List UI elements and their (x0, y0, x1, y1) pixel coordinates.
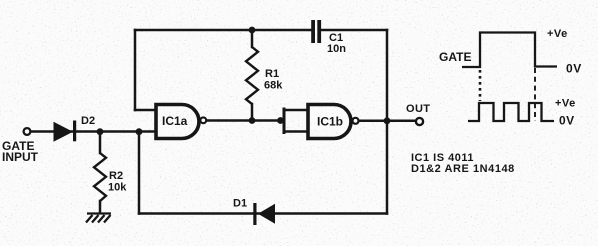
junction dot R1 top (249, 27, 256, 34)
svg-text:INPUT: INPUT (2, 150, 39, 164)
output bubble IC1b (353, 118, 359, 124)
wire bottom feedback rail (139, 212, 387, 215)
svg-text:IC1b: IC1b (317, 115, 343, 129)
wire left vertical from top rail (134, 30, 137, 110)
dotted timing line left (479, 70, 482, 101)
svg-text:D2: D2 (81, 115, 95, 127)
junction dot R2 top (97, 128, 104, 135)
svg-text:10k: 10k (108, 182, 127, 194)
junction dot OUT node (384, 117, 391, 124)
wire left drop to bottom rail (138, 132, 141, 214)
wire R1 top lead (251, 30, 254, 47)
dashed timing line right (534, 68, 536, 121)
junction dot left drop (136, 128, 143, 135)
svg-text:+Ve: +Ve (547, 28, 568, 40)
wire IC1a top input stub (135, 109, 156, 112)
svg-text:D1&2 ARE 1N4148: D1&2 ARE 1N4148 (411, 163, 515, 175)
wire top rail left segment (135, 29, 311, 32)
waveform gate trace (462, 33, 557, 68)
wire R2 bottom lead (99, 201, 102, 213)
junction dot IC1b input (277, 117, 284, 124)
wire IC1b lower input stub (284, 130, 308, 133)
output bubble IC1a (200, 117, 206, 123)
svg-text:R2: R2 (109, 170, 123, 182)
terminal OUT (416, 118, 423, 125)
svg-text:68k: 68k (264, 80, 283, 92)
svg-text:+Ve: +Ve (555, 98, 576, 110)
svg-text:R1: R1 (265, 68, 279, 80)
capacitor C1 (311, 20, 321, 43)
terminal GATE INPUT (24, 128, 31, 135)
resistor R1 (246, 47, 258, 104)
svg-text:0V: 0V (566, 62, 582, 76)
wire right vertical rail (386, 30, 389, 214)
wire IC1b upper input stub (284, 109, 308, 112)
svg-text:IC1a: IC1a (162, 114, 188, 128)
wire top rail right segment (322, 29, 387, 32)
wire IC1b input tie bar (283, 109, 286, 133)
svg-text:OUT: OUT (406, 103, 430, 115)
svg-text:10n: 10n (327, 43, 346, 55)
svg-text:D1: D1 (233, 198, 247, 210)
wire IC1a output to IC1b inputs (207, 119, 285, 122)
wire R2 top lead (99, 132, 102, 154)
wire IC1b output to OUT terminal (359, 120, 415, 123)
ground (86, 214, 111, 223)
nand gate IC1a (156, 105, 199, 139)
wire R1 bottom lead (251, 104, 254, 121)
svg-text:0V: 0V (559, 114, 574, 128)
resistor R2 (94, 153, 106, 201)
waveform output trace (468, 103, 554, 121)
diode D2 (54, 121, 77, 142)
nand gate IC1b (308, 105, 351, 139)
junction dot R1 bottom (249, 117, 256, 124)
diode D1 (253, 203, 275, 225)
svg-text:GATE: GATE (439, 50, 471, 64)
wire gate input line (31, 130, 156, 133)
